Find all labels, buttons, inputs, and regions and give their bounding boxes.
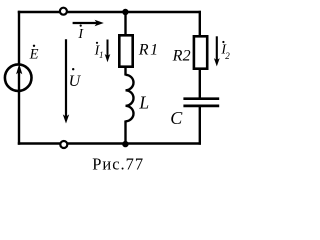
wire right rail below capacitor [199,105,201,145]
resistor R2 [194,36,207,68]
svg-text:1: 1 [99,50,104,60]
label E [29,45,39,63]
svg-text:C: C [170,108,183,128]
svg-text:U: U [69,73,82,90]
label I2 [220,41,230,61]
wire top rail [18,11,201,13]
svg-text:E: E [29,47,39,63]
junction top (middle branch) [122,9,128,15]
svg-text:2: 2 [225,51,230,61]
wire right rail top segment [199,11,201,37]
svg-text:R2: R2 [172,47,191,64]
svg-text:R1: R1 [138,41,160,58]
inductor L [126,75,134,122]
current arrow I2 [214,36,220,66]
wire right rail between R2 and capacitor [199,69,201,100]
voltage arrow U [63,39,69,123]
wire bottom rail [18,142,201,144]
resistor R1 [119,35,132,66]
label U [69,68,82,90]
capacitor C [183,99,219,106]
junction bottom (middle branch) [122,141,128,147]
svg-text:I: I [77,27,84,42]
label I [77,25,84,43]
current arrow I [73,20,104,26]
wire left rail [18,11,20,145]
wire middle branch inductor to bottom rail [124,121,126,145]
wire middle branch R1 to inductor [124,67,126,76]
node A (top open terminal) [60,8,67,15]
svg-text:Рис.77: Рис.77 [92,154,144,173]
svg-text:L: L [138,93,149,113]
node B (bottom open terminal) [60,141,67,148]
current arrow I1 [105,40,111,63]
label I1 [94,42,104,60]
wire middle branch top segment [124,12,126,36]
source E [5,64,32,93]
